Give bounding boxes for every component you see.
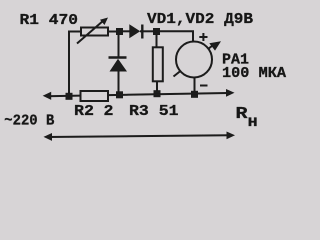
background paper	[0, 0, 300, 152]
resistor R1 wiper arrow	[77, 18, 108, 44]
node: meter to bottom rail	[191, 91, 198, 98]
svg-text:R1 470: R1 470	[20, 12, 79, 29]
wire: R1 to node 1	[108, 31, 117, 33]
resistor R2 (body on rail)	[81, 91, 109, 101]
wire: left vertical from R1 input down to bottom rail	[69, 32, 81, 97]
svg-text:Н: Н	[248, 115, 258, 130]
resistor R3 (vertical body)	[153, 35, 163, 94]
diode VD2 (vertical, anode down)	[109, 35, 128, 95]
node: R3 to bottom rail	[154, 90, 161, 97]
diode VD1	[129, 24, 153, 38]
wire: node1 to VD1	[123, 30, 130, 32]
svg-text:R3 51: R3 51	[129, 103, 179, 120]
minus polarity mark	[200, 85, 208, 87]
svg-text:100 МКА: 100 МКА	[222, 65, 286, 82]
node junction dot 2	[153, 28, 160, 35]
op meter PA1 (circle)	[176, 42, 212, 78]
resistor R1 (variable, body)	[81, 28, 108, 36]
meter needle arrowhead	[209, 41, 221, 50]
wire: node2 over to meter top	[160, 31, 193, 42]
terminal arrow right	[226, 89, 235, 97]
plus polarity mark	[199, 33, 207, 41]
svg-text:R2: R2	[74, 103, 94, 120]
node junction dot 1	[116, 28, 123, 35]
load line R_H (double arrow)	[44, 132, 236, 141]
meter needle arrow (drawn behind circle)	[174, 46, 213, 77]
svg-text:~220 В: ~220 В	[4, 112, 54, 129]
svg-text:R: R	[236, 105, 249, 124]
node: VD2 to bottom rail	[116, 91, 123, 98]
wire: meter bottom to rail	[194, 78, 196, 95]
terminal arrow left (to ~220 V)	[43, 92, 52, 100]
bottom rail wire	[46, 93, 228, 96]
svg-text:VD1,VD2 Д9В: VD1,VD2 Д9В	[147, 11, 253, 28]
node: left wire joins rail	[66, 93, 73, 100]
svg-text:2: 2	[104, 103, 114, 120]
